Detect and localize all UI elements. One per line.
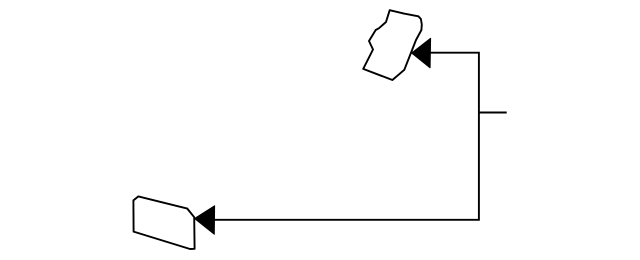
arrowhead into node A (top) bbox=[412, 38, 431, 68]
wire (top horizontal segment, vertical segment, bottom horizontal segment) bbox=[215, 53, 479, 220]
arrowhead into node B (bottom) bbox=[195, 206, 215, 234]
node A (sketchy polygon shape, top) bbox=[363, 10, 422, 80]
wire (tick stub at right of vertical segment) bbox=[479, 112, 507, 114]
node B (sketchy box with clipped corners, bottom-left) bbox=[133, 196, 194, 249]
